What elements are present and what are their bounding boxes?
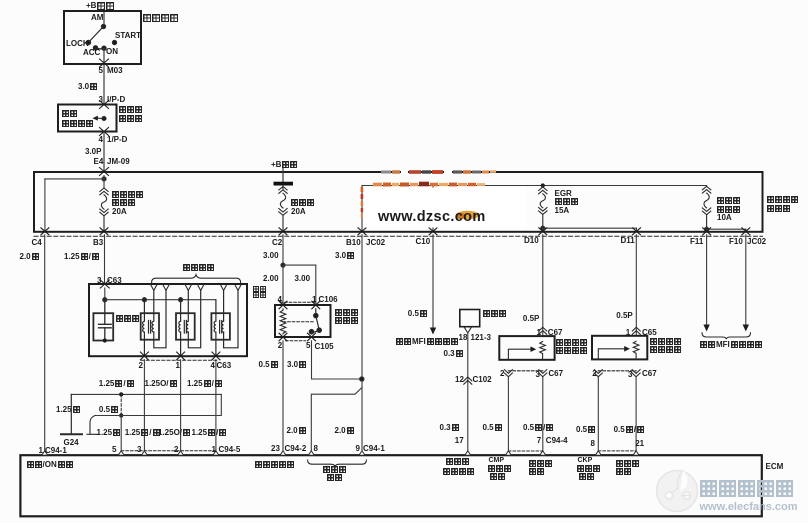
wire CKP ground to ECM pin21 — [635, 377, 637, 455]
label pin B3 — [93, 239, 103, 246]
label pin 4 — [99, 136, 103, 143]
label CKP pin 2 — [592, 370, 596, 377]
label ECM pin 1 (C94-5) — [212, 446, 216, 453]
label ACC — [83, 49, 100, 56]
ground G24 — [61, 394, 82, 434]
label pin 12 — [455, 376, 464, 383]
label crankshaft position sensor line1 — [650, 338, 681, 345]
label wire 0.5 black CMP — [483, 424, 502, 431]
wire B10 drop — [361, 186, 363, 232]
label wire 1.25 red/black — [187, 380, 222, 387]
label E4 — [94, 158, 104, 165]
wire D10 to CMP sensor — [542, 235, 544, 336]
connector dashed line at ECM (CKP) — [598, 450, 636, 452]
connector line JC02 (dashed) — [34, 235, 763, 237]
label wire 2.0 purple pin8 — [287, 427, 306, 434]
label camshaft position sensor line2 — [556, 347, 587, 354]
relay linkage (dashed) — [283, 321, 314, 323]
wire CKP signal to ECM pin8 — [597, 377, 599, 455]
fuse F-main 20A — [279, 186, 287, 232]
wire +B feed into ignition switch — [103, 9, 105, 26]
wire coil pin2 to ECM pin3 — [143, 360, 145, 455]
fuse F-ignition-coil 20A — [100, 188, 108, 232]
label ECM pin 2 — [174, 446, 178, 453]
CMP camshaft position sensor box — [499, 336, 554, 360]
relay contact arm — [309, 309, 321, 334]
label sensor ground CKP line1 — [616, 460, 639, 467]
connector C65 pin1 chevron — [632, 327, 640, 334]
label connector C65 — [642, 329, 657, 336]
label connector C94-4 — [546, 437, 568, 444]
wire coil pin1 to ECM pin2 — [180, 360, 182, 455]
wire C2 down / node split to relay pins — [281, 235, 316, 305]
label wire 2.00 relay — [263, 275, 279, 282]
label connector C63 bottom — [217, 362, 232, 369]
label engine relay line2 — [335, 317, 358, 324]
ignition coil T3 — [211, 291, 238, 357]
label instrument panel — [483, 310, 506, 317]
label wire 2.0 purple C4 — [20, 253, 39, 260]
label wire 1.25 yellow/white — [99, 380, 134, 387]
label coil pin 2 — [139, 362, 143, 369]
label wire 0.5P CKP — [616, 312, 632, 319]
label ECM pin 5 — [112, 446, 116, 453]
node injector fuse output / bus to F10 — [705, 227, 746, 232]
label crankshaft position sensor line2 — [650, 346, 681, 353]
label engine speed signal line2 — [443, 468, 474, 475]
shield drain dashed wire 0.5B — [120, 394, 122, 415]
label pin 3 coil box — [97, 277, 101, 284]
label pin C4 — [32, 239, 42, 246]
wire CMP signal to ECM — [507, 377, 509, 455]
label connector C105 — [315, 343, 334, 350]
dzsc watermark vertical dashes on B10 wire — [361, 187, 364, 218]
label coil pin 4 — [211, 362, 215, 369]
wire CMP ground to ECM pin7 — [542, 377, 544, 455]
label connector C94-5 — [219, 446, 241, 453]
label ignition coil fuse 20A — [112, 208, 127, 215]
label passenger junction box line2 — [119, 115, 142, 122]
ECM box — [20, 455, 761, 516]
watermark dzsc text — [378, 209, 486, 225]
connector C105 dashed line — [286, 340, 306, 342]
label relay pin 2 — [278, 342, 282, 349]
wire coil pin4 to ECM pin1 — [215, 360, 217, 455]
dzsc watermark orange smudge bus streak — [373, 182, 485, 186]
label pin B10 — [346, 239, 361, 246]
label CKP signal line1 — [578, 457, 593, 464]
label wire row2 1.25 red/black — [192, 429, 227, 436]
label wire 1.25 purple/black B3 — [64, 253, 99, 260]
label CKP signal line2 — [577, 465, 600, 472]
label wire 0.3 white upper — [444, 350, 463, 357]
label sensor ground CKP line2 — [616, 468, 631, 475]
label JM-09 — [107, 158, 130, 165]
label ECM pin 9 — [356, 445, 360, 452]
label ignition switch name — [143, 14, 178, 22]
label pin F11 — [690, 238, 703, 245]
shield termination foot — [87, 416, 98, 435]
node shield drain tap lower — [119, 413, 123, 417]
label wire 2.0 purple pin9 — [335, 427, 354, 434]
label pin D10 — [524, 237, 539, 244]
instrument panel pin fork — [464, 327, 471, 333]
ignition switch SW1 box — [64, 11, 141, 64]
label connector C94-1 right — [363, 445, 385, 452]
brace battery capacity pins 8-9 — [308, 460, 367, 466]
label CKP pin 1 — [626, 329, 630, 336]
label pin 3 — [99, 96, 103, 103]
label sensor ground CMP line1 — [529, 460, 552, 467]
label wire 3.00 C2 — [263, 252, 279, 259]
label pin D11 — [621, 237, 635, 244]
label connector JC02 left — [366, 239, 385, 246]
wire F10 to MFI reference arrow — [743, 235, 749, 332]
label CKP signal line3 — [579, 473, 594, 480]
label ECM pin 21 — [635, 440, 644, 447]
label power distribution ref line2 — [62, 120, 93, 127]
label +B power top — [86, 2, 114, 10]
label main fuse name — [291, 199, 314, 206]
label camshaft position sensor line1 — [556, 339, 587, 346]
wire relay pin2 to ECM pin23 — [282, 341, 284, 455]
CKP crankshaft position sensor box — [592, 336, 647, 360]
watermark elecfans url — [700, 501, 798, 513]
label ECM pin 7 — [537, 437, 541, 444]
label START — [115, 32, 141, 39]
connector crossing 3 C63 — [100, 280, 109, 288]
CMP sensor element (resistor + arrow) — [508, 342, 545, 360]
label engine room box line1 — [767, 196, 798, 203]
wire C10 to MFI reference arrow — [430, 235, 436, 335]
label wire 0.3 white lower — [440, 424, 459, 431]
label engine room box line2 — [767, 205, 790, 212]
connector crossing 4 1/P-D — [100, 128, 109, 136]
wire relay pin5 to battery node — [312, 341, 362, 379]
node / arrow to power distribution note — [93, 116, 107, 121]
connector C94-4 dashed line — [508, 450, 542, 452]
dzsc watermark orange smudge top streak — [381, 170, 496, 174]
label connector C106 — [319, 296, 338, 303]
connector C106 dashed line — [280, 301, 316, 303]
label connector C94-2 — [285, 445, 307, 452]
brace under MFI arrows — [702, 333, 751, 339]
capacitor (condenser) — [93, 300, 113, 343]
label engine speed signal line1 — [446, 458, 469, 465]
label EGR fuse name — [555, 198, 578, 205]
label power distribution ref line1 — [62, 110, 77, 117]
label pin C2 — [272, 239, 282, 246]
label wire 3.00 relay — [295, 275, 311, 282]
connector crossing 3 I/P-D — [100, 101, 109, 109]
label ignition coil name line2 — [253, 292, 266, 298]
node EGR fuse tap — [541, 183, 545, 187]
label wire 0.5 black/orange CMP — [523, 424, 553, 431]
label wire row2 1.25 black — [97, 429, 121, 436]
label injector fuse line1 — [717, 197, 740, 204]
dzsc watermark orange blob behind com — [456, 211, 480, 219]
ignition switch contacts and arm — [86, 24, 116, 50]
instrument panel box — [460, 310, 480, 327]
label ON — [106, 48, 118, 55]
label wire row2 1.25 orange/black — [158, 429, 190, 436]
wire C4 branch inside box — [44, 179, 46, 232]
label ECM pin 1 left — [39, 447, 43, 454]
label relay control — [255, 461, 294, 468]
label wire row2 1.25 yellow/white — [125, 429, 160, 436]
label to spark plugs — [183, 264, 214, 271]
connector C67 pins 2,3 chevrons (CKP) — [594, 370, 640, 377]
connector C63 dashed line — [141, 359, 218, 361]
connector C102 chevron crossing — [464, 377, 472, 384]
connector crossing at junction box top entry — [100, 168, 109, 176]
ignition coil T1 — [141, 291, 166, 357]
label connector C63 top — [107, 277, 122, 284]
label CMP signal line2 — [488, 465, 511, 472]
connector crossings at relay bottom — [279, 333, 316, 341]
label CMP pin 2 — [500, 370, 504, 377]
label ECM — [766, 463, 784, 470]
label capacitor — [116, 315, 139, 322]
label connector C67 bottom CKP — [642, 370, 657, 377]
connector crossings at junction box bottom row — [41, 228, 750, 235]
wire branch to ECM pin8 — [311, 388, 362, 456]
label connector 121-3 — [471, 334, 491, 341]
label wire 0.5 purple C10 — [408, 310, 427, 317]
label wire 3.0 purple relay — [287, 361, 306, 368]
ignition coil T2 — [176, 291, 201, 357]
wire ignition switch output pin 5 M03 — [103, 49, 105, 105]
label pin C10 — [416, 238, 431, 245]
node primary feed bus inside coil box — [103, 288, 216, 302]
engine room junction box — [34, 172, 763, 232]
fuse F-EGR 15A — [539, 186, 547, 229]
connector C94-5 dashed line — [121, 450, 216, 452]
label battery capacity line2 — [327, 474, 342, 481]
label MFI control unit ref (C10) — [396, 338, 458, 345]
label 1/P-D — [107, 136, 127, 143]
label ECM pin 3 — [137, 446, 141, 453]
label connector C67 top CMP — [548, 329, 563, 336]
label wire 3.0 purple — [78, 83, 97, 90]
label I/P-D — [107, 96, 125, 103]
label ECM pin 23 — [271, 445, 280, 452]
label pin 5 — [99, 67, 103, 74]
wire F11 to MFI reference arrow — [703, 235, 709, 332]
label ignition coil fuse line1 — [112, 191, 143, 198]
label wire 0.5P CMP — [523, 315, 539, 322]
label connector C94-1 left — [45, 447, 67, 454]
dzsc watermark white patch — [364, 188, 526, 228]
node junction to C4 branch — [45, 176, 106, 189]
connector triangles at ECM top edge — [42, 451, 639, 455]
watermark elecfans brand — [700, 480, 793, 497]
label connector C67 bottom CMP — [548, 370, 563, 377]
connector C67 pin1 chevron — [539, 327, 547, 334]
label wire 1.25 black G24 — [56, 406, 80, 413]
wire C10 drop (behind watermark) — [432, 186, 434, 232]
label ignition coil name line1 — [253, 286, 266, 292]
label battery capacity line1 — [323, 466, 346, 473]
label ECM pin 17 — [455, 437, 464, 444]
fuse F-injector 10A — [702, 186, 710, 229]
label EGR fuse 15A — [555, 207, 570, 214]
label CMP signal line3 — [490, 473, 505, 480]
label wire 0.5 black/orange CKP — [614, 426, 644, 433]
wire B10 3.0P down / node battery — [360, 235, 364, 455]
label pin F10 — [729, 238, 743, 245]
CKP sensor element (resistor + arrow) — [598, 341, 639, 359]
wire shield drain to ECM pin5 — [120, 416, 122, 456]
label start/ON input — [27, 461, 73, 468]
label coil pin 1 — [176, 362, 180, 369]
shield bus lower rail and right link — [95, 394, 221, 415]
label M03 — [107, 67, 123, 74]
label ECM pin 8 (battery) — [314, 445, 318, 452]
wire instrument panel to ECM pin17 — [467, 333, 469, 455]
bus wire B10 feed rail — [362, 185, 707, 187]
spark plug terminals (6 forks) — [151, 285, 242, 291]
label injector fuse line2 — [717, 206, 740, 213]
label sensor ground CMP line2 — [529, 468, 544, 475]
wire B3 to ignition coil pin 3 C63 — [104, 235, 106, 284]
label CMP pin 3 — [536, 371, 540, 378]
node EGR fuse output / bus to D11 — [541, 226, 637, 232]
label relay pin 5 — [306, 342, 310, 349]
label wire 3.0P — [85, 148, 101, 155]
label pin 18 — [459, 334, 468, 341]
label EGR — [555, 190, 572, 197]
label AM — [91, 14, 103, 21]
label passenger junction box line1 — [119, 106, 142, 113]
bus bar (fusible link bar) — [274, 182, 294, 186]
label connector C102 — [473, 376, 492, 383]
label engine relay line1 — [335, 309, 358, 316]
label ignition coil fuse line2 — [112, 199, 135, 206]
wire C4 to ECM pin 1 C94-1 — [44, 235, 46, 455]
junction box (passenger side) — [58, 105, 117, 132]
label connector JC02 right — [747, 238, 766, 245]
label +B power at bus bar — [271, 161, 297, 168]
label relay pin 4 — [278, 296, 282, 303]
label CMP pin 1 — [537, 329, 541, 336]
connector crossing at switch box edge — [100, 59, 109, 67]
connector crossings at relay top — [279, 301, 320, 309]
label ground G24 — [64, 439, 79, 446]
connector crossings at coil box bottom (C63) — [140, 352, 220, 360]
label LOCK — [66, 40, 89, 47]
node shield drain tap upper — [119, 392, 123, 396]
ignition coil assembly box — [89, 284, 247, 356]
label main fuse 20A — [291, 208, 306, 215]
engine relay K1 box — [275, 305, 331, 337]
label CMP signal line1 — [489, 457, 505, 464]
shield bus upper rail — [71, 393, 221, 395]
label relay pin 1 — [312, 296, 316, 303]
label injector fuse 10A — [717, 214, 732, 221]
label wire 0.5 blue — [259, 361, 278, 368]
elecfans watermark logo — [657, 470, 698, 512]
label wire 1.25 orange/black — [145, 380, 177, 387]
label wire 0.5 yellow CKP — [576, 426, 595, 433]
brace over spark plug terminals — [152, 275, 241, 283]
label CKP pin 3 — [628, 371, 632, 378]
label ECM pin 8 CKP — [591, 440, 595, 447]
wire +B supply to bus bar — [282, 167, 284, 183]
relay coil winding — [280, 309, 286, 334]
label wire 0.5 black shield — [99, 406, 118, 413]
wire E4 JM-09 down to engine room junction box — [103, 132, 105, 173]
wire D11 to CKP sensor — [635, 235, 637, 336]
label wire 3.0 purple B10 — [335, 252, 354, 259]
label MFI control unit ref (F11/F10) — [700, 341, 762, 348]
connector C67 pins 2,3 chevrons — [504, 370, 546, 377]
